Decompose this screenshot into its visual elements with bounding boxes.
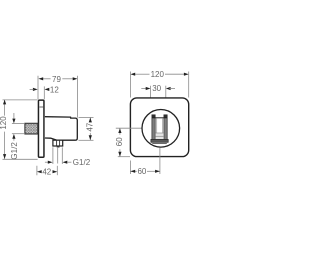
outlet arrows at pipe	[45, 161, 49, 163]
extension line right of 12	[43, 86, 45, 99]
svg-text:79: 79	[52, 75, 61, 84]
holder socket right bar	[164, 115, 167, 140]
svg-text:G1/2: G1/2	[10, 142, 19, 160]
dimension 30 arrows	[141, 88, 147, 90]
dimension 47 extension lines	[79, 117, 94, 140]
left 60 dimension line	[119, 128, 121, 156]
svg-text:12: 12	[50, 85, 59, 94]
socket inner vertical lines	[157, 118, 163, 133]
dimension 12 tails	[30, 88, 34, 90]
svg-text:60: 60	[115, 137, 124, 146]
svg-text:47: 47	[86, 122, 95, 131]
socket bar top caps	[152, 115, 156, 118]
escutcheon square	[130, 98, 188, 157]
svg-text:30: 30	[152, 84, 161, 93]
dimension 120 arrows	[130, 73, 188, 76]
bottom 60 arrows	[130, 170, 160, 173]
outlet pipe lines / extension lines	[53, 147, 62, 164]
dimension 120 line	[4, 100, 6, 116]
socket flange lower line	[152, 142, 167, 144]
holder socket left bar	[152, 115, 155, 140]
bottom 60 extension left	[129, 161, 131, 175]
dimension 120 arrows	[3, 100, 6, 159]
holder ring circle	[142, 110, 180, 148]
dimension 12 arrows	[33, 88, 49, 91]
socket inner horizontal lines	[155, 133, 164, 136]
outlet nut	[53, 140, 63, 146]
body (cone + holder front)	[45, 117, 77, 141]
svg-text:120: 120	[0, 116, 8, 130]
socket top cap line	[152, 117, 167, 119]
dimension 120 extension top	[3, 99, 38, 101]
extension lines of 30	[151, 86, 166, 115]
bottom 60 dimension line	[130, 170, 160, 172]
nut bottom stub	[57, 146, 60, 147]
socket lower interior band	[155, 133, 163, 139]
socket flange	[151, 139, 168, 142]
dimension 120 extension bottom	[3, 158, 38, 160]
dimension 47 arrows	[89, 118, 92, 141]
svg-text:60: 60	[137, 167, 146, 176]
extension line right of 79	[77, 76, 79, 118]
left 60 arrows	[118, 128, 121, 156]
nut facet lines	[57, 140, 60, 145]
left 60 bottom extension	[118, 156, 130, 158]
dimension 47 line	[89, 118, 91, 123]
extension line left of 79	[37, 76, 39, 100]
centerline vertical	[159, 148, 161, 174]
dimension 42 arrows	[37, 170, 57, 173]
dimension 42 extension lines	[37, 166, 57, 175]
nipple arrow bottom (points up)	[13, 138, 15, 141]
extension lines of 120	[130, 72, 188, 98]
nipple arrow top (points down)	[13, 113, 15, 119]
dimension 120 line (top)	[134, 73, 185, 75]
wall plate (side profile)	[38, 100, 44, 157]
svg-text:120: 120	[151, 70, 165, 79]
svg-text:42: 42	[42, 168, 51, 177]
wall nipple (hatched)	[25, 123, 38, 134]
svg-text:G1/2: G1/2	[73, 158, 91, 167]
nipple extension lines	[12, 124, 25, 134]
centerline horizontal	[116, 127, 152, 129]
dimension 79 line	[42, 78, 73, 80]
dimension 79 arrows	[38, 77, 77, 80]
small tick on plate right edge	[39, 106, 43, 108]
